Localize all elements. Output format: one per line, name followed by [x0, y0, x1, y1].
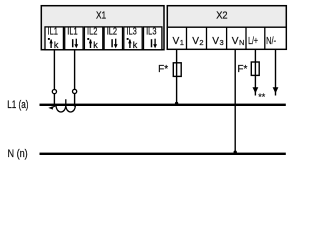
- svg-text:k: k: [133, 40, 138, 50]
- svg-text:2: 2: [199, 38, 203, 47]
- svg-text:IL2: IL2: [107, 27, 118, 38]
- svg-text:k: k: [93, 40, 98, 50]
- svg-text:N: N: [239, 38, 244, 47]
- svg-text:N (n): N (n): [8, 148, 28, 160]
- svg-text:N/-: N/-: [266, 35, 276, 47]
- svg-text:3: 3: [220, 38, 224, 47]
- svg-text:**: **: [258, 92, 266, 102]
- svg-text:F*: F*: [237, 64, 247, 75]
- svg-text:L1 (a): L1 (a): [7, 99, 28, 111]
- svg-text:F*: F*: [158, 64, 168, 75]
- svg-text:V: V: [192, 35, 199, 47]
- svg-text:V: V: [212, 35, 219, 47]
- svg-text:X2: X2: [216, 10, 228, 22]
- svg-text:IL1: IL1: [48, 27, 59, 38]
- svg-text:L/+: L/+: [248, 35, 258, 47]
- svg-text:1: 1: [180, 38, 184, 47]
- svg-text:IL3: IL3: [126, 27, 137, 38]
- svg-text:V: V: [232, 35, 239, 47]
- svg-text:IL2: IL2: [87, 27, 98, 38]
- svg-text:IL3: IL3: [146, 27, 157, 38]
- svg-text:IL1: IL1: [67, 27, 78, 38]
- svg-text:V: V: [173, 35, 180, 47]
- svg-text:k: k: [54, 40, 59, 50]
- svg-text:X1: X1: [96, 10, 106, 22]
